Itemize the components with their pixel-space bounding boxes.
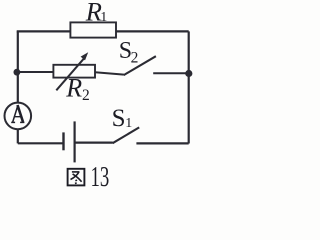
- svg-text:2: 2: [131, 49, 139, 66]
- svg-text:S: S: [112, 105, 126, 132]
- svg-text:R: R: [65, 74, 82, 103]
- svg-text:2: 2: [82, 87, 90, 104]
- svg-text:1: 1: [100, 10, 107, 25]
- svg-text:13: 13: [91, 161, 110, 192]
- svg-text:1: 1: [125, 116, 132, 131]
